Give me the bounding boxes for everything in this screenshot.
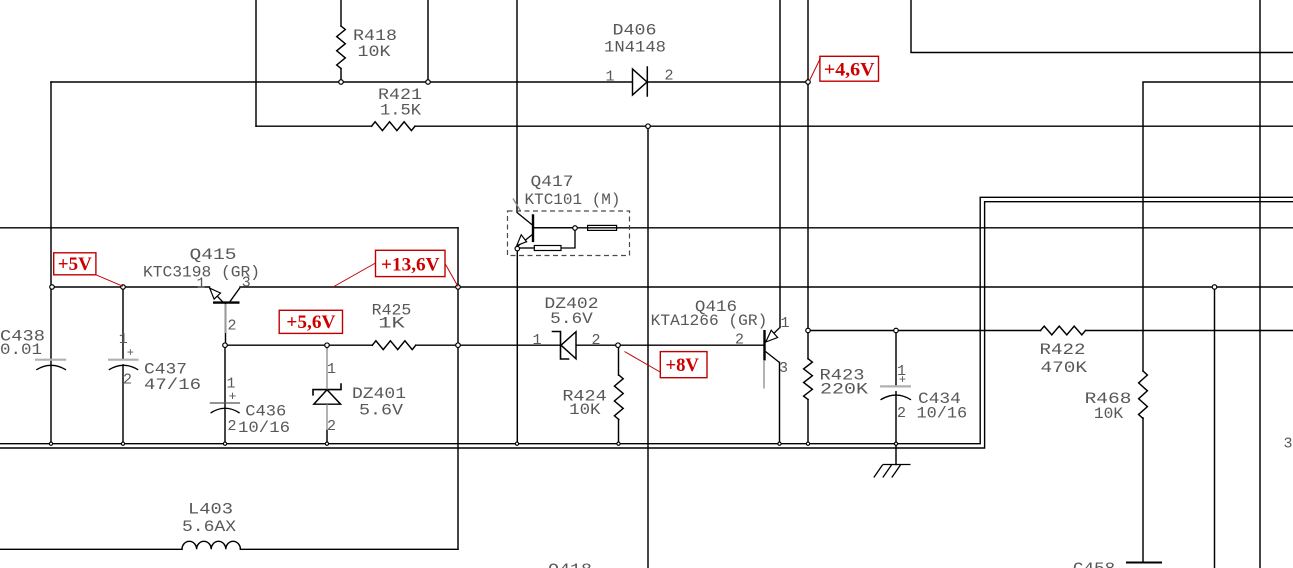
wire vertical x=780 (to Q416 emitter)	[779, 0, 781, 328]
Q417 base wire	[534, 227, 573, 229]
Q417 internal node to R2	[561, 228, 575, 248]
svg-text:+5,6V: +5,6V	[286, 312, 335, 333]
wire vertical x=458 from corner down to L403 corner	[457, 228, 459, 550]
inductor L403 5.6AX (4 arcs)	[182, 541, 240, 549]
svg-text:L403: L403	[188, 501, 233, 519]
box +4,6V	[820, 56, 879, 81]
svg-text:2: 2	[735, 332, 744, 349]
svg-text:KTA1266 (GR): KTA1266 (GR)	[651, 312, 768, 330]
capacitor C437 top plate (gray)	[108, 359, 139, 361]
svg-text:2: 2	[227, 418, 236, 435]
transistor Q415 KTC3198	[225, 304, 227, 333]
wire vertical x=808 (R423 branch)	[807, 0, 809, 444]
wire long horizontal y=227.5 left segment to corner x=458	[0, 227, 458, 229]
svg-text:1.5K: 1.5K	[380, 102, 421, 120]
transistor Q417 KTC101 (digital, dashed box)	[508, 211, 630, 256]
resistor R423 220K (vertical zigzag)	[804, 359, 813, 400]
svg-text:5.6AX: 5.6AX	[182, 518, 236, 536]
wire +4,6V net top horizontal y=82	[51, 81, 808, 83]
capacitor C458 top plate (bottom edge, cut)	[1126, 562, 1162, 564]
svg-text:C436: C436	[245, 403, 286, 421]
svg-text:+: +	[229, 389, 237, 404]
Q417 R2 to emitter node	[520, 247, 535, 249]
capacitor C434 top plate (gray)	[880, 385, 911, 387]
wire C437 branch x=123	[122, 287, 124, 444]
svg-text:10K: 10K	[358, 43, 391, 61]
svg-text:Q415: Q415	[190, 246, 237, 264]
svg-text:10K: 10K	[1094, 405, 1124, 423]
resistor R425 1K (horizontal zigzag)	[372, 341, 416, 350]
svg-text:2: 2	[123, 372, 132, 389]
svg-text:Q418: Q418	[548, 561, 592, 568]
wire left vertical x=51 from corner down to ground bus	[50, 82, 52, 444]
lead stub below Q416 bar (gray)	[763, 361, 765, 389]
wire R418 branch vertical x=341	[340, 0, 342, 82]
resistor R424 10K (vertical zigzag)	[614, 375, 623, 420]
wire C434 branch x=896	[895, 331, 897, 465]
ground symbol below bus at C434	[874, 465, 911, 478]
ground bus junction circles	[49, 442, 897, 445]
lead DZ401 top (gray)	[326, 347, 328, 389]
Q417 internal resistor R2	[534, 246, 561, 251]
wire R424 branch x=618.5	[618, 345, 620, 443]
transistor Q416 KTA1266	[763, 330, 765, 361]
leader +8V	[625, 352, 662, 373]
capacitor C437 bottom plate (arc)	[109, 365, 138, 370]
lead DZ401 to bus (black)	[326, 345, 328, 443]
diode D406 1N4148	[633, 69, 648, 95]
junction node circles	[50, 80, 1217, 348]
box +8V	[660, 352, 707, 378]
zener diode DZ402 5.6V	[561, 332, 576, 359]
svg-text:2: 2	[327, 418, 336, 435]
svg-text:1N4148: 1N4148	[604, 39, 666, 57]
wire +5,6V net horizontal y=344.5	[225, 344, 764, 346]
svg-text:Q417: Q417	[531, 173, 574, 191]
svg-text:5.6V: 5.6V	[359, 402, 403, 420]
svg-text:D406: D406	[613, 22, 657, 40]
svg-text:1: 1	[327, 361, 336, 378]
wire top right corner x=911 y=52.5	[911, 0, 1293, 53]
svg-text:2: 2	[591, 332, 600, 349]
svg-text:220K: 220K	[820, 381, 868, 399]
wire +8V net horizontal y=330	[808, 330, 1293, 332]
capacitor C436 bottom plate (arc)	[211, 408, 240, 413]
wire L403 net horizontal y=546.5	[0, 548, 458, 550]
capacitor C438 top plate (gray)	[35, 359, 66, 361]
svg-text:R422: R422	[1040, 341, 1086, 359]
wire Q416 collector to bus x=779.5	[779, 363, 781, 444]
svg-text:3: 3	[242, 275, 251, 292]
leader +13,6V left	[333, 263, 376, 287]
resistor R422 470K (horizontal zigzag)	[1041, 326, 1086, 335]
wire vertical x=1260 full height	[1259, 0, 1261, 568]
svg-text:+: +	[899, 373, 906, 387]
lead DZ401 bottom (gray)	[326, 404, 328, 430]
wire vertical x=1215	[1214, 287, 1216, 568]
svg-text:1: 1	[532, 332, 541, 349]
svg-text:KTC101 (M): KTC101 (M)	[525, 191, 621, 209]
wire R421 net horizontal y=126.5	[256, 125, 1293, 127]
wire vertical x=517 (Q417 collector / emitter to bus)	[516, 0, 518, 444]
box +13,6V	[376, 250, 446, 276]
svg-text:10K: 10K	[569, 401, 601, 419]
wire vertical x=256 top	[255, 0, 257, 126]
leader +4,6V	[810, 58, 821, 81]
svg-text:1: 1	[605, 69, 614, 86]
svg-text:0.01: 0.01	[0, 341, 42, 359]
zener diode DZ401 5.6V	[314, 390, 341, 405]
svg-text:2: 2	[664, 68, 673, 85]
svg-text:+13,6V: +13,6V	[381, 254, 440, 275]
box +5,6V	[279, 310, 342, 333]
box +5V	[54, 253, 96, 275]
wire vertical x=648 full height	[647, 126, 649, 568]
wire y=82 right segment with corner x=1143	[1143, 82, 1293, 563]
resistor R418 10K (vertical zigzag)	[337, 26, 346, 69]
svg-text:2: 2	[897, 405, 906, 422]
leader Q417 label (gray)	[513, 199, 521, 211]
svg-text:3: 3	[779, 360, 788, 377]
svg-text:2: 2	[227, 318, 236, 335]
resistor R468 10K (vertical zigzag)	[1139, 371, 1148, 419]
svg-text:5.6V: 5.6V	[550, 310, 593, 328]
capacitor C434 bottom plate (arc)	[881, 395, 912, 400]
svg-text:C458: C458	[1073, 560, 1115, 568]
svg-text:3: 3	[1283, 436, 1292, 453]
wire Q415 base / C436 branch x=225	[224, 303, 227, 444]
wire +13,6V net horizontal y=286	[52, 286, 1293, 288]
svg-text:+4,6V: +4,6V	[824, 61, 875, 81]
svg-text:10/16: 10/16	[238, 419, 290, 437]
leader +5V	[96, 275, 123, 287]
Q417 emitter with arrow	[518, 234, 533, 246]
wire Q417 output horizontal y=228 to right edge	[534, 227, 1293, 229]
leader +13,6V right	[445, 264, 458, 287]
svg-text:+8V: +8V	[665, 355, 699, 376]
wire vertical x=428 top	[427, 0, 429, 82]
svg-text:+5V: +5V	[58, 254, 92, 275]
svg-text:10/16: 10/16	[917, 405, 968, 423]
ground bus double line (inner)	[0, 202, 1293, 448]
svg-text:47/16: 47/16	[144, 376, 201, 394]
svg-text:+: +	[127, 346, 134, 360]
svg-text:DZ401: DZ401	[352, 385, 406, 403]
resistor R421 1.5K (horizontal zigzag)	[372, 122, 416, 131]
Q417 bar	[532, 214, 534, 242]
svg-text:1: 1	[780, 315, 789, 332]
capacitor C438 bottom plate (arc)	[36, 365, 66, 370]
svg-text:1K: 1K	[378, 315, 405, 333]
Q417 collector	[517, 213, 533, 226]
svg-text:1: 1	[196, 276, 205, 293]
svg-text:470K: 470K	[1041, 359, 1088, 377]
ground bus double line (outer)	[0, 197, 1293, 443]
Q417 internal resistor R1	[588, 225, 617, 230]
capacitor C436 top plate	[210, 402, 240, 404]
